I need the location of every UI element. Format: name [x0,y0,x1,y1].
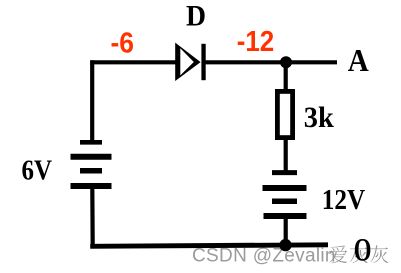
battery B2 12V plate long bottom [264,213,307,219]
battery B1 6V plate short middle [80,168,102,174]
svg-text:CSDN @Zevalin: CSDN @Zevalin [192,246,336,267]
svg-text:3k: 3k [304,101,334,134]
wire left vertical upper (corner down to 6V battery) [90,60,94,141]
diode D triangle [175,43,200,81]
svg-text:O: O [354,233,372,269]
battery B1 6V plate short top [80,140,102,145]
battery B1 6V plate long [71,154,112,160]
watermark glyph hui 1 [350,245,368,263]
svg-text:D: D [186,0,206,33]
svg-text:12V: 12V [322,184,366,216]
watermark glyph hui 2 [370,245,388,263]
wire 12V battery to bottom wire [284,218,288,246]
junction dot bottom node [279,239,291,251]
svg-text:-6: -6 [111,28,135,60]
battery B2 12V plate short top [272,170,297,175]
battery B2 12V plate long [263,185,307,191]
svg-text:6V: 6V [22,154,53,186]
resistor 3k body [277,91,292,137]
wire bottom horizontal (ground rail to node O) [90,245,328,247]
svg-text:A: A [348,42,369,78]
wire node A junction down to resistor [284,62,288,92]
battery B1 6V plate long bottom [71,183,112,189]
node O label [354,233,372,269]
watermark glyph ai [329,245,347,263]
wire resistor to 12V battery [284,138,288,173]
wire diode cathode to node A [206,60,338,64]
svg-text:-12: -12 [237,26,275,58]
junction dot at node -12 [280,56,292,68]
diode D cathode bar [201,44,205,80]
battery B2 12V plate short middle [272,198,297,204]
wire top-left horizontal (node -6 to diode anode) [90,60,176,64]
wire left vertical lower (6V battery to bottom wire) [90,188,95,248]
